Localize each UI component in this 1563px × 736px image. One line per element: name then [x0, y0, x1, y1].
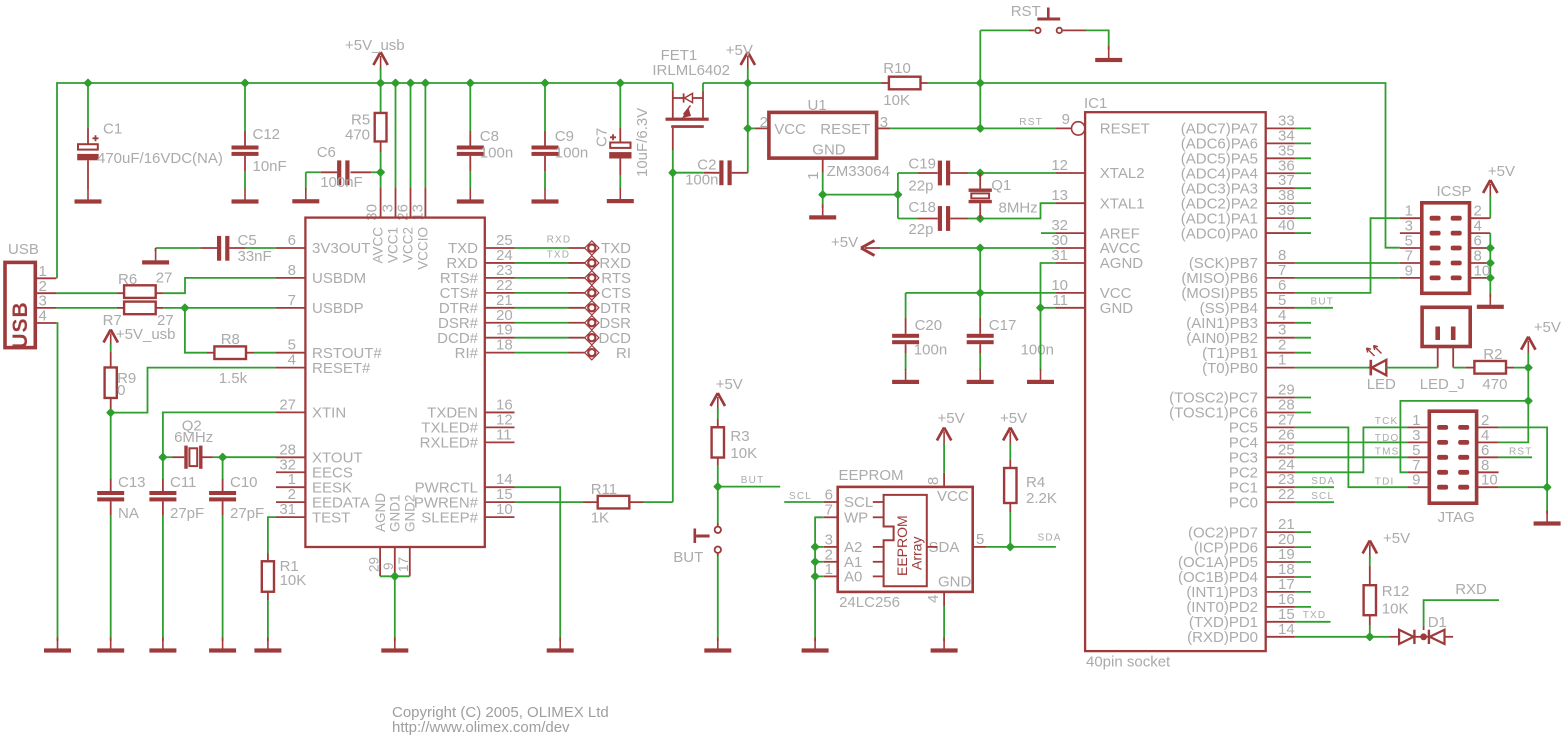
svg-text:100n: 100n: [480, 145, 513, 162]
node JTAG ground junction: [1544, 484, 1551, 491]
svg-text:TXD: TXD: [547, 249, 571, 260]
svg-text:10K: 10K: [730, 445, 757, 462]
wire +5V to JTAG pin7: [1400, 401, 1528, 472]
capacitor C2: [673, 172, 704, 174]
svg-text:10: 10: [1481, 472, 1498, 489]
svg-text:C8: C8: [480, 128, 499, 145]
pin 16 TXDEN of FT232: [485, 411, 515, 413]
pin 7 WP of EEPROM: [824, 516, 838, 518]
pin 33 (ADC7)PA7 of IC1: [1266, 127, 1295, 129]
node rail/R10 junction: [977, 80, 984, 87]
node BUT junction: [714, 483, 721, 490]
wire +5V to JTAG pin4: [1499, 401, 1529, 443]
diode LED: [1369, 367, 1371, 369]
pin 27 XTIN of FT232: [276, 411, 305, 413]
svg-text:10nF: 10nF: [253, 158, 287, 175]
pin 24 PC2 of IC1: [1266, 471, 1295, 473]
pin 4 RESET# of FT232: [276, 367, 305, 369]
IC IC1 40pin socket box: [1085, 112, 1266, 651]
capacitor C9: [544, 83, 546, 131]
svg-text:VCC2: VCC2: [401, 227, 416, 263]
wire PC0 SCL stub: [1295, 501, 1334, 503]
ground for C17: [979, 369, 981, 380]
svg-text:4: 4: [288, 352, 296, 369]
wire RTS line to pad: [515, 277, 569, 279]
wire C5 to ground: [155, 248, 157, 251]
wire R8 branch: [185, 308, 207, 353]
svg-text:C19: C19: [908, 156, 936, 173]
svg-text:GND2: GND2: [403, 494, 418, 532]
svg-text:1.5k: 1.5k: [219, 370, 248, 387]
svg-text:SCL: SCL: [1311, 491, 1334, 502]
svg-text:C17: C17: [989, 317, 1017, 334]
pin 23 RTS# of FT232: [485, 277, 515, 279]
node R12/D1 junction: [1366, 633, 1373, 640]
wire FT232 VCC pins to rail: [395, 83, 397, 188]
wire PC4 to JTAG pin3 TDO: [1295, 441, 1407, 443]
pin 31 AGND of IC1: [1055, 262, 1085, 264]
svg-text:9: 9: [1412, 472, 1420, 489]
node A1 junction: [812, 558, 819, 565]
pin 29 (TOSC2)PC7 of IC1: [1266, 397, 1295, 399]
svg-text:RI: RI: [616, 345, 631, 362]
wire PWREN# to R11: [515, 501, 584, 503]
svg-text:ZM33064: ZM33064: [827, 163, 890, 180]
IC EEPROM 24LC256 box: [838, 487, 973, 592]
pin 11 GND of IC1: [1055, 307, 1085, 309]
resistor R1: [267, 553, 269, 562]
capacitor C1: [87, 83, 89, 128]
pin 6 3V3OUT of FT232: [276, 247, 305, 249]
svg-text:+5V: +5V: [831, 234, 858, 251]
wire +5V_usb top rail: [57, 83, 673, 278]
wire PD1 TXD stub: [1295, 621, 1331, 623]
svg-text:22p: 22p: [908, 221, 933, 238]
svg-text:+5V: +5V: [726, 42, 753, 59]
pin 21 DTR# of FT232: [485, 307, 515, 309]
svg-text:14: 14: [1278, 621, 1295, 638]
pin 1 of USB: [35, 277, 56, 279]
node SDA/R4 junction: [1007, 544, 1014, 551]
supply +5V arrow at R12: [1363, 541, 1377, 554]
pin 10 SLEEP# of FT232: [485, 516, 515, 518]
svg-text:R11: R11: [591, 481, 617, 498]
wire SCL to EEPROM: [784, 501, 824, 503]
svg-text:C6: C6: [317, 144, 336, 161]
wire LED to LED_J pin1: [1386, 367, 1437, 369]
pin 3 A2 of EEPROM: [824, 546, 838, 548]
wire TEST to R1: [268, 517, 276, 553]
wire JTAG pin6 RST stub: [1499, 456, 1533, 458]
capacitor C11: [162, 457, 164, 479]
pin 20 (ICP)PD6 of IC1: [1266, 546, 1295, 548]
svg-text:6MHz: 6MHz: [174, 429, 213, 446]
pins 29 9 17 FT232 ground pins: [379, 547, 381, 576]
capacitor C12: [244, 83, 246, 131]
pin 7 USBDP of FT232: [276, 307, 305, 309]
wire PC7 PC6 stubs: [1295, 397, 1311, 399]
capacitor C10: [222, 457, 224, 479]
svg-text:RXLED#: RXLED#: [420, 435, 479, 452]
ground for C11: [162, 638, 164, 649]
svg-text:3V3OUT: 3V3OUT: [312, 240, 370, 257]
pad diamond CTS: [585, 286, 599, 300]
node GND pin11 junction: [1037, 304, 1044, 311]
connector JTAG box: [1429, 411, 1476, 503]
pin 30 AVCC of IC1: [1055, 247, 1085, 249]
resistor R11: [583, 501, 598, 503]
pin 19 DCD# of FT232: [485, 337, 515, 339]
svg-text:VCCIO: VCCIO: [416, 227, 431, 270]
svg-text:11: 11: [496, 426, 512, 443]
pin 36 (ADC4)PA4 of IC1: [1266, 172, 1295, 174]
supply +5V arrow near FET: [741, 52, 755, 65]
svg-text:TCK: TCK: [1375, 416, 1399, 427]
node R2/+5V junction: [1525, 364, 1532, 371]
wire XTAL1: [980, 203, 1055, 218]
svg-text:C10: C10: [230, 474, 258, 491]
resistor R2: [1466, 367, 1474, 369]
wire +5V to rail and U1: [747, 68, 749, 83]
node ICSP pin8 junction: [1487, 260, 1494, 267]
pin 8 (SCK)PB7 of IC1: [1266, 262, 1295, 264]
svg-text:USB: USB: [9, 301, 32, 348]
wire DTR line to pad: [515, 307, 569, 309]
pin 1 of JTAG: [1407, 426, 1429, 428]
resistor R10: [882, 82, 890, 84]
wire U1 GND down: [822, 173, 824, 195]
svg-text:9: 9: [1062, 111, 1070, 128]
pin 2 of U1: [755, 127, 769, 129]
svg-text:WP: WP: [844, 510, 868, 527]
wire AVCC: [880, 247, 1055, 249]
pin 19 (OC1A)PD5 of IC1: [1266, 561, 1295, 563]
svg-text:40pin socket: 40pin socket: [1086, 654, 1171, 671]
wire R10 branch vertical: [979, 30, 981, 128]
svg-text:12: 12: [1051, 157, 1068, 174]
svg-text:10uF/6.3V: 10uF/6.3V: [634, 108, 651, 177]
svg-text:7: 7: [288, 292, 296, 309]
svg-text:27pF: 27pF: [170, 505, 204, 522]
svg-text:RST: RST: [1011, 3, 1041, 20]
svg-text:R6: R6: [118, 271, 137, 288]
svg-text:JTAG: JTAG: [1438, 509, 1475, 526]
pin 9 of JTAG: [1407, 486, 1429, 488]
svg-text:10K: 10K: [280, 572, 307, 589]
pin 5 RSTOUT# of FT232: [276, 352, 305, 354]
svg-text:AVCC: AVCC: [371, 227, 386, 264]
svg-text:+5V_usb: +5V_usb: [345, 37, 405, 54]
wire DSR line to pad: [515, 322, 569, 324]
svg-text:TDI: TDI: [1375, 477, 1395, 488]
wire AGND: [1041, 263, 1056, 308]
wire AREF stub: [1041, 232, 1055, 234]
pin 8 USBDM of FT232: [276, 277, 305, 279]
svg-text:PC0: PC0: [1229, 494, 1258, 511]
svg-text:100n: 100n: [1021, 342, 1054, 359]
pin 5 of ICSP: [1400, 247, 1422, 249]
pin 31 TEST of FT232: [276, 516, 305, 518]
svg-text:VCC: VCC: [937, 488, 969, 505]
ground for ICSP: [1489, 294, 1491, 305]
svg-text:ICSP: ICSP: [1437, 183, 1472, 200]
svg-text:RST: RST: [1019, 117, 1043, 128]
svg-text:(T0)PB0: (T0)PB0: [1202, 360, 1258, 377]
svg-text:RST: RST: [1509, 447, 1533, 458]
capacitor C5: [156, 247, 201, 249]
wire SDA: [986, 546, 1056, 548]
svg-text:10: 10: [496, 501, 513, 518]
pin 3 of USB: [35, 307, 56, 309]
svg-text:10K: 10K: [883, 92, 910, 109]
svg-text:0: 0: [117, 382, 125, 399]
svg-text:USBDP: USBDP: [312, 300, 364, 317]
pin 2 of ICSP: [1470, 217, 1491, 219]
pin 6 of JTAG: [1477, 456, 1499, 458]
wire SCK PB7 to ICSP pin7: [1295, 262, 1400, 264]
svg-text:22p: 22p: [908, 178, 933, 195]
wire C6 to ground: [305, 172, 307, 190]
IC U1 ZM33064 box: [769, 112, 877, 158]
pins of LED_J: [1437, 347, 1439, 368]
node Q2 left junction: [160, 454, 167, 461]
svg-text:24LC256: 24LC256: [839, 594, 900, 611]
svg-text:RESET#: RESET#: [312, 360, 371, 377]
svg-text:100n: 100n: [914, 342, 947, 359]
svg-text:29: 29: [367, 557, 382, 572]
svg-text:27: 27: [156, 270, 173, 287]
svg-text:C18: C18: [908, 199, 936, 216]
wire PC2 to JTAG pin1 TCK: [1295, 427, 1407, 472]
capacitor C7 polarized: [619, 83, 621, 128]
pin 11 RXLED# of FT232: [485, 441, 515, 443]
svg-text:GND: GND: [1100, 300, 1134, 317]
svg-text:C20: C20: [915, 317, 943, 334]
pin 24 RXD of FT232: [485, 262, 515, 264]
svg-text:(RXD)PD0: (RXD)PD0: [1187, 629, 1258, 646]
svg-text:VCC: VCC: [774, 121, 806, 138]
resistor R8: [207, 352, 214, 354]
wire PB4 BUT stub: [1295, 307, 1333, 309]
pad diamond RI: [585, 345, 599, 359]
pin 28 (TOSC1)PC6 of IC1: [1266, 412, 1295, 414]
svg-text:RI#: RI#: [455, 345, 479, 362]
ground for C13: [110, 638, 112, 649]
capacitor C13: [110, 413, 112, 479]
svg-text:6: 6: [288, 232, 296, 249]
wire R11 to FET gate: [644, 501, 673, 503]
node R9/C13/RESET# junction: [107, 409, 114, 416]
capacitor C8: [469, 83, 471, 131]
svg-text:1K: 1K: [591, 510, 609, 527]
pin 4 of JTAG: [1477, 441, 1499, 443]
pin 23 PC1 of IC1: [1266, 486, 1295, 488]
pin 8 VCC of EEPROM: [943, 473, 945, 487]
svg-text:33nF: 33nF: [238, 248, 272, 265]
svg-text:C11: C11: [170, 474, 196, 491]
ground for C20: [905, 369, 907, 380]
svg-text:USBDM: USBDM: [312, 270, 366, 287]
pin 21 (OC2)PD7 of IC1: [1266, 531, 1295, 533]
pin 10 of ICSP: [1470, 277, 1491, 279]
wire AVCC to VCC: [979, 248, 981, 293]
wire PD7-PD2 stubs: [1295, 531, 1311, 533]
pin 4 GND of EEPROM: [943, 592, 945, 606]
pad diamond DCD: [585, 331, 599, 345]
IC FT232 box: [305, 218, 484, 547]
pin 32 EECS of FT232: [276, 471, 305, 473]
wire ICSP pins 4 6 8 10 to ground: [1489, 233, 1491, 295]
svg-text:C1: C1: [103, 121, 122, 138]
transistor FET1 IRLML6402: [672, 83, 674, 90]
ground for C8: [469, 189, 471, 200]
pin 5 (SS)PB4 of IC1: [1266, 307, 1295, 309]
svg-text:+5V: +5V: [1534, 319, 1561, 336]
pin 1 of ICSP: [1400, 217, 1422, 219]
pin 5 of JTAG: [1407, 456, 1429, 458]
node U1 GND junction: [819, 191, 826, 198]
svg-text:13: 13: [1051, 187, 1068, 204]
ground for EEPROM address pins: [814, 638, 816, 649]
svg-text:+5V_usb: +5V_usb: [116, 326, 176, 343]
pin 18 RI# of FT232: [485, 352, 515, 354]
svg-text:http://www.olimex.com/dev: http://www.olimex.com/dev: [392, 719, 570, 736]
pin 38 (ADC2)PA2 of IC1: [1266, 202, 1295, 204]
svg-text:100nF: 100nF: [320, 174, 363, 191]
node +5V rail junction: [744, 80, 751, 87]
svg-text:R4: R4: [1026, 474, 1045, 491]
svg-text:BUT: BUT: [1311, 297, 1335, 308]
pin 14 (RXD)PD0 of IC1: [1266, 636, 1295, 638]
wire PC3 to JTAG pin5 TMS: [1295, 456, 1407, 458]
svg-text:470uF/16VDC(NA): 470uF/16VDC(NA): [97, 150, 223, 167]
wire RXD line to pad: [515, 262, 569, 264]
resistor R7: [56, 307, 117, 309]
svg-text:(ADC0)PA0: (ADC0)PA0: [1181, 225, 1258, 242]
pin 18 (OC1B)PD4 of IC1: [1266, 576, 1295, 578]
svg-text:SDA: SDA: [1038, 533, 1062, 544]
pin 22 PC0 of IC1: [1266, 501, 1295, 503]
svg-text:TEST: TEST: [312, 509, 350, 526]
pin 37 (ADC3)PA3 of IC1: [1266, 187, 1295, 189]
supply +5V arrow at R3: [711, 393, 725, 406]
svg-text:3: 3: [880, 114, 888, 131]
connector LED_J box: [1422, 307, 1470, 346]
svg-text:BUT: BUT: [673, 549, 703, 566]
svg-text:40: 40: [1278, 217, 1295, 234]
ground for R1: [267, 638, 269, 649]
svg-text:7: 7: [825, 502, 833, 519]
wire JTAG pin10 to ground: [1499, 486, 1548, 488]
svg-text:BUT: BUT: [741, 475, 765, 486]
wire XTIN: [163, 412, 276, 457]
pin 14 PWRCTL of FT232: [485, 486, 515, 488]
svg-text:1: 1: [1278, 352, 1286, 369]
svg-text:NA: NA: [118, 505, 139, 522]
svg-text:2: 2: [760, 114, 768, 131]
diode D1 dual: [1390, 636, 1399, 638]
svg-text:1: 1: [825, 561, 833, 578]
svg-text:XTAL2: XTAL2: [1100, 165, 1145, 182]
pin 25 PC3 of IC1: [1266, 456, 1295, 458]
pin 10 of JTAG: [1477, 486, 1499, 488]
wire MISO PB6 to ICSP pin9: [1295, 277, 1400, 279]
svg-text:1: 1: [805, 172, 822, 180]
wire D1 to RXD: [1423, 627, 1425, 631]
node U1 VCC junction: [744, 125, 751, 132]
svg-text:22: 22: [1278, 486, 1295, 503]
pin 6 of ICSP: [1470, 247, 1491, 249]
resistor R3: [717, 408, 719, 419]
node A0 junction: [812, 573, 819, 580]
svg-text:A0: A0: [844, 569, 862, 586]
svg-text:9: 9: [1405, 262, 1413, 279]
svg-text:+5V: +5V: [1383, 530, 1410, 547]
switch RST button: [980, 29, 1029, 31]
pin 4 of USB: [35, 322, 56, 324]
pad diamond RXD: [585, 256, 599, 270]
svg-text:GND: GND: [812, 142, 846, 159]
wire PB0 to LED: [1295, 367, 1369, 369]
svg-text:TDO: TDO: [1375, 433, 1400, 444]
pad diamond DTR: [585, 301, 599, 315]
svg-text:U1: U1: [808, 97, 827, 114]
ground for IC1 GND: [1040, 369, 1042, 380]
wire FET1 gate down to R11: [672, 128, 674, 150]
capacitor C19: [897, 173, 899, 219]
supply +5V arrow at R4: [1003, 428, 1017, 441]
svg-text:R3: R3: [730, 428, 749, 445]
svg-text:SDA: SDA: [1311, 476, 1335, 487]
wire PC1 SDA stub: [1295, 486, 1334, 488]
pin 17 (INT1)PD3 of IC1: [1266, 591, 1295, 593]
ground for U1: [822, 204, 824, 215]
ground for USB shield: [57, 638, 59, 649]
svg-text:C12: C12: [253, 126, 281, 143]
pin 20 DSR# of FT232: [485, 322, 515, 324]
node Q2 right junction: [219, 454, 226, 461]
wire PWRCTL to ground: [515, 487, 561, 638]
svg-text:100n: 100n: [685, 172, 718, 189]
node A2 junction: [812, 544, 819, 551]
supply +5V arrow AVCC (left-pointing): [861, 241, 875, 256]
pin 3 (AIN0)PB2 of IC1: [1266, 337, 1295, 339]
ground for C6: [305, 188, 307, 199]
ground for C5: [155, 249, 157, 260]
wire ICSP pin2 to +5V: [1489, 196, 1491, 218]
wire WP/A2/A1/A0 to ground: [815, 517, 824, 638]
svg-text:+5V: +5V: [716, 376, 743, 393]
pin 8 of JTAG: [1477, 471, 1499, 473]
wire XTOUT: [223, 456, 276, 458]
svg-text:8MHz: 8MHz: [999, 200, 1038, 217]
pin 32 AREF of IC1: [1055, 232, 1085, 234]
svg-text:USB: USB: [8, 241, 39, 258]
svg-text:18: 18: [496, 337, 513, 354]
switch BUT button: [717, 487, 719, 523]
svg-text:RXD: RXD: [1455, 581, 1487, 598]
node VCC junction: [977, 290, 984, 297]
pin 16 (INT0)PD2 of IC1: [1266, 606, 1295, 608]
pin 2 A1 of EEPROM: [824, 561, 838, 563]
svg-text:R2: R2: [1483, 346, 1502, 363]
svg-text:SCL: SCL: [789, 491, 812, 502]
pin 7 of JTAG: [1407, 471, 1429, 473]
wire LED_J pin2 to R2: [1453, 367, 1466, 369]
svg-text:AGND: AGND: [1100, 255, 1144, 272]
node Q1 top junction: [977, 170, 984, 177]
wire MOSI PB5 to ICSP pin1: [1295, 218, 1400, 293]
